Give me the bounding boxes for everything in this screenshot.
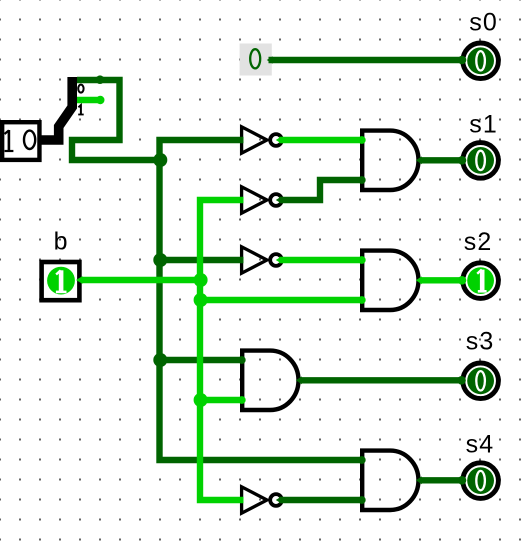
wire K1 to pin s0: [269, 57, 463, 63]
wire end nub splitter bit1: [96, 96, 104, 104]
junction node bright (200,400): [194, 393, 208, 407]
svg-text:s3: s3: [466, 327, 495, 355]
port nub G1 upper input: [358, 136, 366, 144]
output pin s1: [463, 143, 499, 179]
port nub U1 output: [276, 137, 281, 144]
port nub pin s1: [458, 156, 467, 165]
junction node dark (160,260): [153, 253, 167, 267]
wire U1 output to G1 upper input: [279, 137, 364, 143]
AND gate G1: [362, 131, 418, 190]
AND gate G4: [362, 451, 418, 510]
svg-text:s2: s2: [464, 228, 493, 256]
splitter label 0: [78, 85, 83, 93]
port nub G3 lower input: [238, 396, 246, 404]
NOT gate U4: [242, 487, 282, 513]
splitter SP1: [41, 77, 72, 140]
wire U4 output to G4 lower input: [279, 497, 364, 503]
wire G4 output to pin s4: [420, 477, 462, 483]
port nub U4 output: [276, 497, 281, 504]
NOT gate U1: [242, 127, 282, 153]
constant K1 value 0: [240, 44, 272, 76]
port nub G2 output: [416, 276, 422, 284]
port nub G3 upper input: [238, 356, 246, 364]
wire bright trunk with branch to U2 and U4: [200, 200, 244, 500]
input pin IN2 b: [42, 262, 80, 300]
wire U2 output to G1 lower input: [279, 180, 364, 200]
port nub U2 output: [276, 197, 281, 204]
port nub pin s4: [458, 476, 467, 485]
input pin IN1 value 10: [2, 122, 39, 160]
AND gate G2: [362, 251, 418, 310]
wire G3 upper input: [160, 357, 245, 363]
wire U3 output to G2 upper input: [279, 257, 364, 263]
port nub G2 upper input: [358, 256, 366, 264]
port nub pin s0: [458, 56, 467, 65]
port nub G1 output: [416, 156, 422, 164]
wire U3 input: [160, 257, 244, 263]
port nub pin b output: [76, 276, 82, 284]
wire G3 output to pin s3: [300, 377, 462, 383]
port nub G2 lower input: [358, 296, 366, 304]
wire splitter bit0 to trunk: [72, 80, 160, 160]
port nub G4 output: [416, 476, 422, 484]
AND gate G3: [242, 351, 298, 410]
wire G3 lower input: [200, 397, 244, 403]
port nub pin s3: [457, 376, 466, 385]
port nub U3 output: [276, 257, 281, 264]
wire pin b to bright trunk: [82, 277, 201, 283]
junction node bright (200,300): [194, 293, 208, 307]
splitter label 1: [78, 105, 84, 115]
wire G2 lower input: [200, 297, 364, 303]
junction node dark (160,160): [153, 153, 167, 167]
junction node dark (160,360): [153, 353, 167, 367]
port nub pin s2: [458, 276, 467, 285]
junction node bright (200,280): [194, 273, 208, 287]
svg-text:s1: s1: [469, 111, 498, 139]
port nub G1 lower input: [358, 176, 366, 184]
wire G1 output to pin s1: [420, 157, 462, 163]
NOT gate U2: [242, 187, 282, 213]
NOT gate U3: [242, 247, 282, 273]
output pin s2: [463, 263, 499, 299]
wire splitter bit1 stub: [77, 97, 100, 103]
port nub K1 output: [267, 56, 273, 63]
wire trunk dark vertical with branch to U1: [160, 140, 365, 460]
port nub G3 output: [296, 376, 302, 384]
output pin s3: [463, 363, 499, 399]
output pin s4: [463, 463, 499, 499]
svg-text:s4: s4: [466, 430, 495, 458]
port nub G4 upper input: [358, 456, 366, 464]
output pin s0: [463, 43, 499, 79]
svg-text:b: b: [54, 227, 69, 255]
svg-text:s0: s0: [469, 8, 498, 36]
wire G2 output to pin s2: [420, 277, 462, 283]
port nub G4 lower input: [358, 496, 366, 504]
wire end nub splitter bit0: [96, 75, 105, 84]
